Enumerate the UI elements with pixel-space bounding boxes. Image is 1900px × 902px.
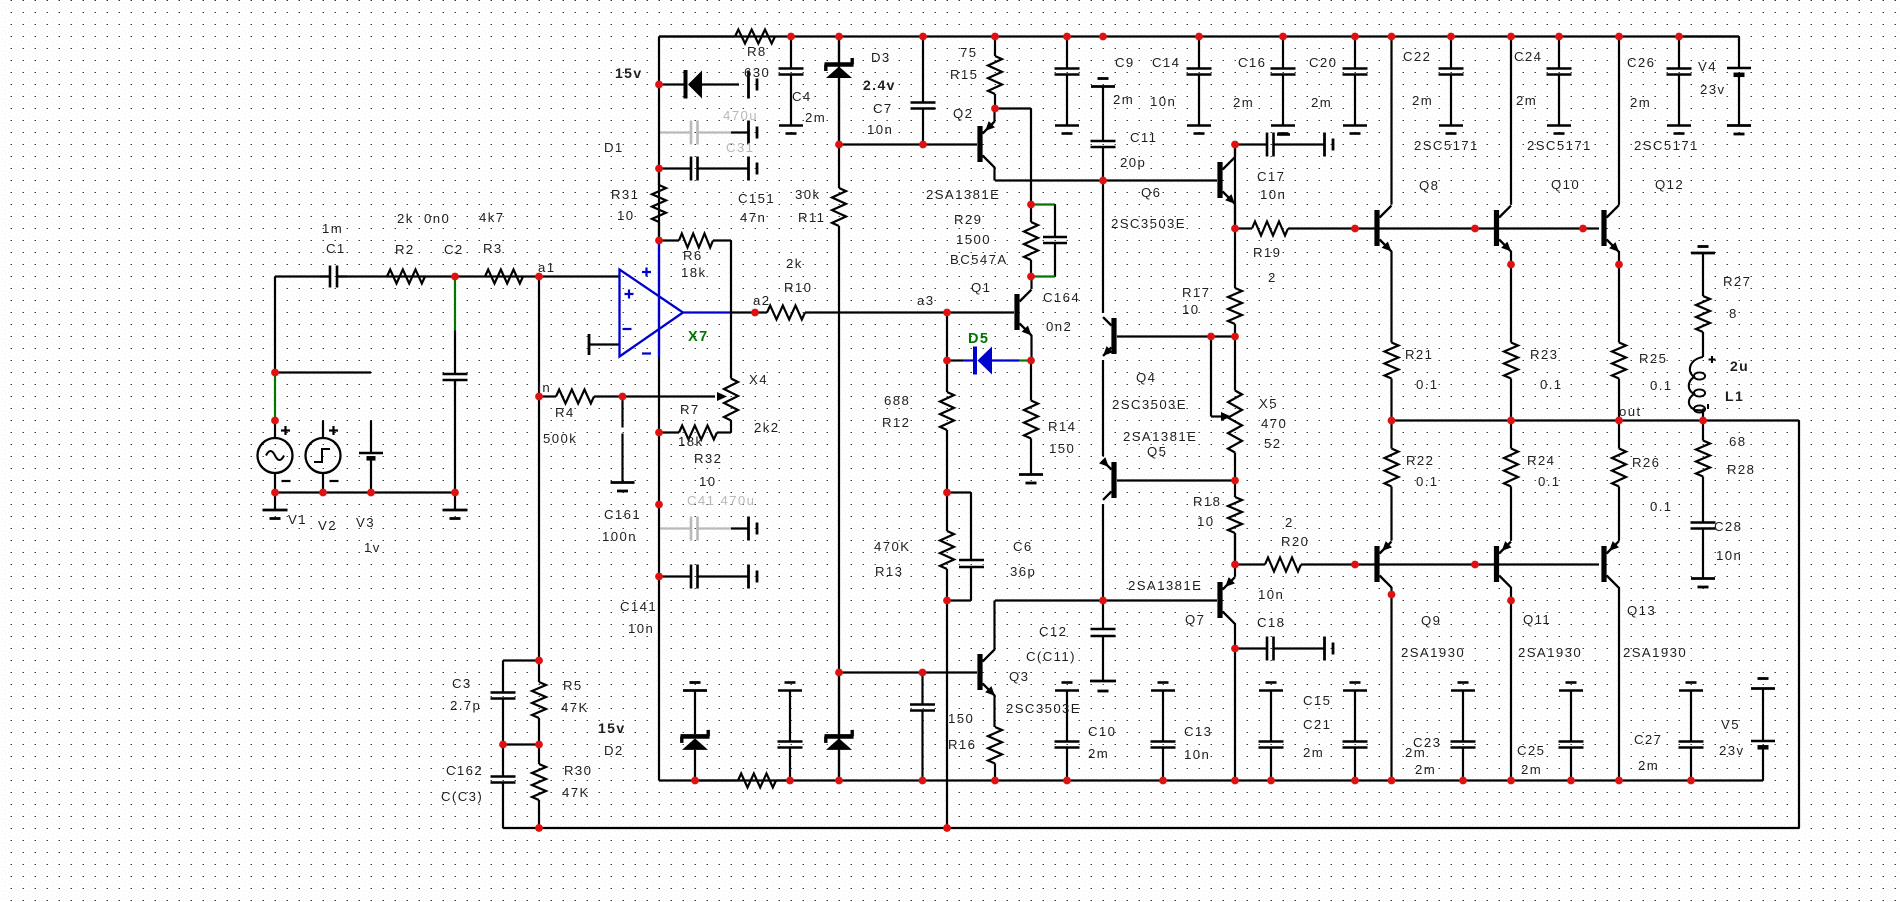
svg-text:0.1: 0.1 <box>1416 377 1439 392</box>
svg-text:4k7: 4k7 <box>479 210 504 225</box>
svg-text:68: 68 <box>1729 434 1746 449</box>
svg-text:Q10: Q10 <box>1551 177 1580 192</box>
svg-text:C17: C17 <box>1257 169 1285 184</box>
svg-text:2: 2 <box>1268 270 1277 285</box>
svg-text:75: 75 <box>960 45 977 60</box>
svg-text:470K: 470K <box>874 539 910 554</box>
svg-text:23v: 23v <box>1719 743 1744 758</box>
svg-text:18k: 18k <box>681 265 706 280</box>
svg-text:C162: C162 <box>446 763 483 778</box>
svg-text:2m: 2m <box>1412 93 1433 108</box>
svg-text:C4: C4 <box>792 89 812 104</box>
svg-text:630: 630 <box>744 65 770 80</box>
svg-text:0.1: 0.1 <box>1650 378 1673 393</box>
svg-text:C3: C3 <box>452 676 472 691</box>
svg-text:1v: 1v <box>364 540 381 555</box>
svg-text:10n: 10n <box>867 122 893 137</box>
svg-text:500k: 500k <box>543 431 577 446</box>
svg-text:C141: C141 <box>620 599 657 614</box>
svg-text:Q1: Q1 <box>971 280 991 295</box>
svg-text:2SA1381E: 2SA1381E <box>1128 578 1202 593</box>
svg-text:C13: C13 <box>1184 724 1212 739</box>
svg-text:R28: R28 <box>1727 462 1755 477</box>
svg-text:C151: C151 <box>738 191 775 206</box>
svg-text:2.4v: 2.4v <box>863 77 896 93</box>
svg-text:C41 470u: C41 470u <box>687 493 755 508</box>
svg-text:R30: R30 <box>564 763 592 778</box>
svg-text:47K: 47K <box>562 785 590 800</box>
svg-text:2m: 2m <box>1233 95 1254 110</box>
svg-text:R25: R25 <box>1639 351 1667 366</box>
svg-text:C(C3): C(C3) <box>441 789 483 804</box>
svg-text:R5: R5 <box>563 678 583 693</box>
svg-text:R8: R8 <box>747 44 767 59</box>
svg-text:2m: 2m <box>1088 746 1109 761</box>
svg-text:R29: R29 <box>954 212 982 227</box>
svg-text:R14: R14 <box>1048 419 1076 434</box>
svg-text:2SA1381E: 2SA1381E <box>1123 429 1197 444</box>
svg-text:R7: R7 <box>680 402 700 417</box>
svg-text:Q6: Q6 <box>1141 185 1161 200</box>
svg-text:2m: 2m <box>1303 745 1324 760</box>
svg-text:52: 52 <box>1264 436 1281 451</box>
svg-text:Q8: Q8 <box>1419 178 1439 193</box>
svg-text:R10: R10 <box>784 280 812 295</box>
svg-text:Q4: Q4 <box>1136 370 1156 385</box>
svg-text:0.1: 0.1 <box>1538 474 1561 489</box>
svg-text:R21: R21 <box>1405 347 1433 362</box>
svg-text:2m: 2m <box>1415 762 1436 777</box>
svg-text:C27: C27 <box>1634 732 1662 747</box>
svg-text:10: 10 <box>1197 514 1214 529</box>
svg-text:2m: 2m <box>1113 92 1134 107</box>
svg-text:C24: C24 <box>1514 49 1542 64</box>
svg-text:R18: R18 <box>1193 494 1221 509</box>
svg-text:10n: 10n <box>1184 747 1210 762</box>
svg-text:0n2: 0n2 <box>1046 319 1072 334</box>
svg-text:2SA1930: 2SA1930 <box>1401 645 1465 660</box>
svg-text:C28: C28 <box>1714 519 1742 534</box>
svg-text:2m: 2m <box>1638 758 1659 773</box>
svg-text:C26: C26 <box>1627 55 1655 70</box>
svg-text:2k: 2k <box>786 256 803 271</box>
svg-text:8: 8 <box>1729 306 1738 321</box>
svg-text:R15: R15 <box>950 67 978 82</box>
svg-text:R22: R22 <box>1406 453 1434 468</box>
svg-text:10: 10 <box>699 474 716 489</box>
svg-text:2SA1930: 2SA1930 <box>1518 645 1582 660</box>
svg-text:36p: 36p <box>1010 564 1036 579</box>
svg-text:R31: R31 <box>611 187 639 202</box>
svg-text:C7: C7 <box>873 101 893 116</box>
svg-text:10n: 10n <box>628 621 654 636</box>
svg-text:20p: 20p <box>1120 155 1146 170</box>
svg-text:R13: R13 <box>875 564 903 579</box>
svg-text:R20: R20 <box>1281 534 1309 549</box>
svg-text:2SC5171: 2SC5171 <box>1634 138 1699 153</box>
svg-text:R12: R12 <box>882 415 910 430</box>
svg-text:C161: C161 <box>604 507 641 522</box>
svg-text:2: 2 <box>1285 515 1294 530</box>
svg-text:C21: C21 <box>1303 717 1331 732</box>
svg-text:R11: R11 <box>798 210 825 225</box>
svg-text:2m: 2m <box>1516 93 1537 108</box>
svg-text:D2: D2 <box>604 743 624 758</box>
svg-text:R2: R2 <box>395 242 415 257</box>
svg-text:C11: C11 <box>1130 130 1157 145</box>
svg-text:Q12: Q12 <box>1655 177 1684 192</box>
svg-text:V2: V2 <box>318 518 337 533</box>
svg-text:47n: 47n <box>740 210 766 225</box>
svg-text:2m: 2m <box>805 110 826 125</box>
svg-text:Q2: Q2 <box>953 106 973 121</box>
svg-text:10n: 10n <box>1260 187 1286 202</box>
svg-text:R24: R24 <box>1527 453 1555 468</box>
svg-text:BC547A: BC547A <box>950 252 1008 267</box>
svg-text:R16: R16 <box>948 737 976 752</box>
svg-text:2u: 2u <box>1730 358 1749 374</box>
svg-text:L1: L1 <box>1725 388 1744 404</box>
svg-text:0n0: 0n0 <box>424 211 450 226</box>
svg-text:a3: a3 <box>917 293 934 308</box>
svg-text:V3: V3 <box>356 515 375 530</box>
svg-text:X4: X4 <box>749 372 768 387</box>
svg-text:R23: R23 <box>1530 347 1558 362</box>
svg-text:470u: 470u <box>723 108 758 123</box>
svg-text:C18: C18 <box>1257 615 1285 630</box>
svg-text:2m: 2m <box>1311 95 1332 110</box>
svg-text:R26: R26 <box>1632 455 1660 470</box>
svg-text:C22: C22 <box>1403 49 1431 64</box>
svg-text:C1: C1 <box>326 241 346 256</box>
svg-text:2SC3503E: 2SC3503E <box>1006 701 1081 716</box>
svg-text:C14: C14 <box>1152 55 1180 70</box>
svg-text:150: 150 <box>1049 441 1075 456</box>
svg-text:2SA1930: 2SA1930 <box>1623 645 1687 660</box>
svg-text:C164: C164 <box>1043 290 1080 305</box>
svg-text:10: 10 <box>1182 302 1199 317</box>
svg-text:23v: 23v <box>1700 82 1725 97</box>
svg-text:2.7p: 2.7p <box>450 698 481 713</box>
svg-text:V1: V1 <box>288 512 307 527</box>
svg-text:C10: C10 <box>1088 724 1116 739</box>
svg-text:D1: D1 <box>604 140 624 155</box>
svg-text:R4: R4 <box>555 405 575 420</box>
svg-text:V5: V5 <box>1721 717 1740 732</box>
svg-text:C6: C6 <box>1013 539 1033 554</box>
svg-text:C16: C16 <box>1238 55 1266 70</box>
svg-text:Q7: Q7 <box>1185 612 1205 627</box>
svg-text:100n: 100n <box>602 529 637 544</box>
svg-text:2SC3503E: 2SC3503E <box>1112 397 1187 412</box>
svg-text:Q5: Q5 <box>1147 444 1167 459</box>
svg-text:18k: 18k <box>678 434 703 449</box>
svg-text:Q9: Q9 <box>1421 613 1441 628</box>
svg-text:1m: 1m <box>322 221 343 236</box>
svg-text:R32: R32 <box>694 451 722 466</box>
svg-text:in: in <box>538 380 551 395</box>
svg-text:30k: 30k <box>795 187 820 202</box>
svg-text:X5: X5 <box>1259 396 1278 411</box>
svg-text:10n: 10n <box>1150 94 1176 109</box>
svg-text:R6: R6 <box>683 248 703 263</box>
svg-text:D3: D3 <box>871 50 891 65</box>
svg-text:688: 688 <box>884 393 910 408</box>
svg-text:C25: C25 <box>1517 743 1545 758</box>
svg-text:2SC3503E: 2SC3503E <box>1111 216 1186 231</box>
svg-text:V4: V4 <box>1698 59 1717 74</box>
svg-text:2SC5171: 2SC5171 <box>1414 138 1479 153</box>
svg-text:C12: C12 <box>1039 624 1067 639</box>
svg-text:R17: R17 <box>1182 285 1210 300</box>
svg-text:470: 470 <box>1261 416 1287 431</box>
svg-text:X7: X7 <box>688 329 709 345</box>
svg-text:2SA1381E: 2SA1381E <box>926 187 1000 202</box>
svg-text:15v: 15v <box>615 65 643 81</box>
svg-text:R27: R27 <box>1723 274 1751 289</box>
svg-text:C2: C2 <box>444 242 464 257</box>
svg-text:Q13: Q13 <box>1627 603 1656 618</box>
svg-text:150: 150 <box>948 711 974 726</box>
svg-text:2m: 2m <box>1630 95 1651 110</box>
svg-text:2m: 2m <box>1521 762 1542 777</box>
svg-text:10: 10 <box>617 208 634 223</box>
svg-text:10n: 10n <box>1716 548 1742 563</box>
svg-text:R19: R19 <box>1253 245 1281 260</box>
svg-text:C20: C20 <box>1309 55 1337 70</box>
svg-text:a1: a1 <box>538 260 555 275</box>
svg-text:0.1: 0.1 <box>1416 474 1439 489</box>
svg-text:C9: C9 <box>1115 55 1135 70</box>
svg-text:47K: 47K <box>561 700 589 715</box>
svg-text:a2: a2 <box>753 293 770 308</box>
svg-text:D5: D5 <box>968 331 989 347</box>
svg-text:Q3: Q3 <box>1009 669 1029 684</box>
svg-text:2k2: 2k2 <box>754 420 779 435</box>
svg-text:0.1: 0.1 <box>1650 499 1673 514</box>
svg-text:15v: 15v <box>598 720 626 736</box>
svg-text:C(C11): C(C11) <box>1026 649 1076 664</box>
svg-text:C15: C15 <box>1303 693 1331 708</box>
svg-text:2k: 2k <box>397 211 414 226</box>
svg-text:10n: 10n <box>1258 587 1284 602</box>
svg-text:0.1: 0.1 <box>1540 377 1563 392</box>
svg-text:1500: 1500 <box>956 232 991 247</box>
svg-text:C31: C31 <box>726 140 754 155</box>
svg-text:C23: C23 <box>1413 735 1441 750</box>
svg-text:Q11: Q11 <box>1523 612 1551 627</box>
svg-text:out: out <box>1619 404 1642 419</box>
svg-text:2SC5171: 2SC5171 <box>1527 138 1592 153</box>
svg-text:R3: R3 <box>483 241 503 256</box>
